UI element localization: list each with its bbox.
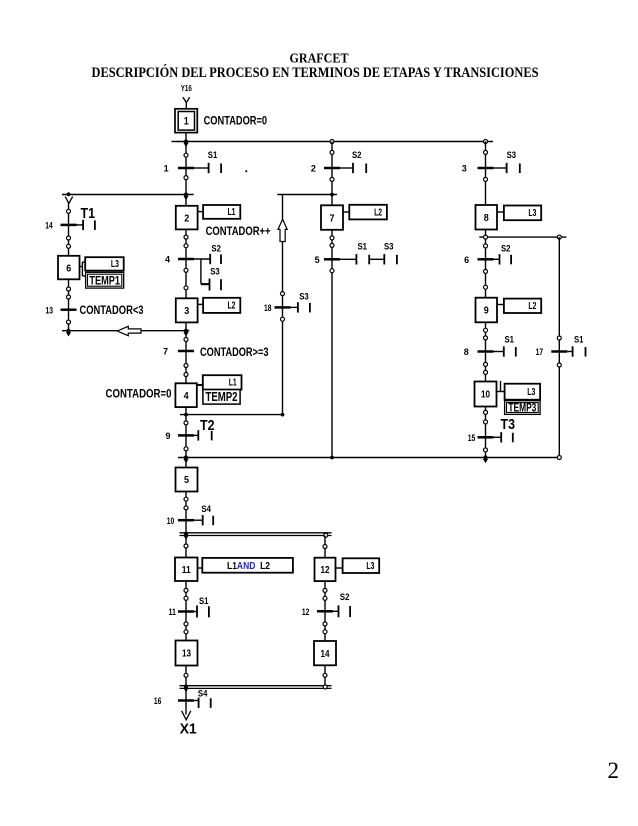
jump return line (from transition 18) — [180, 414, 283, 416]
jump branch wire — [282, 195, 284, 415]
svg-text:9: 9 — [165, 431, 170, 441]
contact S2 (transition 12) — [333, 605, 350, 617]
connection points above step 4 — [184, 364, 188, 377]
connection points above step 13 — [184, 622, 188, 634]
contact S1 (transition 5) — [340, 254, 369, 264]
label S2 — [352, 150, 362, 160]
wire fork to step 12 — [324, 536, 326, 558]
node branch col3 — [484, 140, 488, 144]
wire step 12 to action — [336, 567, 343, 569]
node colR on branch line — [557, 235, 561, 239]
contact S3 (transition 4) — [201, 279, 221, 291]
transition 3 — [462, 164, 494, 174]
connection points below step 6 — [67, 287, 71, 299]
label T1 — [81, 206, 96, 222]
action L3 of step 12 — [343, 558, 380, 573]
wire step 7 to action — [343, 211, 349, 213]
svg-text:TEMP2: TEMP2 — [206, 389, 238, 404]
node col12 on fork — [324, 533, 328, 537]
svg-text:S1: S1 — [208, 150, 218, 160]
svg-text:8: 8 — [464, 347, 469, 357]
contact S1 (transition 11) — [194, 606, 209, 618]
wire step 11 to transition 11 — [185, 581, 187, 641]
contact S3 (transition 5) — [369, 254, 397, 264]
node col1 on return line — [183, 329, 188, 337]
svg-text:4: 4 — [184, 390, 189, 402]
jump line to step 7 branch — [277, 194, 337, 196]
svg-text:L2: L2 — [374, 207, 382, 218]
svg-text:CONTADOR++: CONTADOR++ — [206, 226, 271, 238]
connection point below return line — [184, 338, 188, 342]
connection points transition 3 — [484, 150, 488, 181]
transition 2 — [311, 164, 340, 174]
svg-text:13: 13 — [46, 305, 54, 315]
action TEMP1 of step 6 — [86, 272, 124, 288]
connection points above step 6 — [67, 236, 71, 248]
svg-text:L1AND L2: L1AND L2 — [227, 560, 270, 572]
label S2 (transition 12) — [340, 592, 350, 602]
step 13 — [176, 641, 198, 666]
svg-text:2: 2 — [311, 164, 316, 174]
wire col3 to step 8 — [485, 142, 487, 206]
wire step 7 to sync line — [331, 230, 333, 458]
svg-text:L3: L3 — [111, 259, 119, 270]
wire col2 to step 7 — [331, 142, 333, 206]
initial step 1 (double box) — [175, 109, 197, 133]
svg-text:L2: L2 — [528, 301, 536, 312]
node under step 1 — [183, 139, 188, 147]
svg-text:5: 5 — [315, 255, 320, 265]
svg-text:L1: L1 — [229, 378, 237, 389]
connection points above transition 8 — [484, 328, 488, 340]
transition 14 — [45, 221, 76, 231]
step 2 — [176, 206, 198, 230]
svg-text:S2: S2 — [211, 244, 221, 254]
svg-text:S2: S2 — [352, 150, 362, 160]
svg-text:3: 3 — [462, 164, 467, 174]
condition CONTADOR>=3 — [200, 347, 269, 359]
node colL on return line — [66, 329, 71, 337]
svg-text:11: 11 — [169, 607, 177, 617]
connection point above transition 17 — [557, 336, 561, 340]
jump arrow (up) — [278, 219, 287, 241]
svg-text:L3: L3 — [527, 387, 535, 398]
svg-text:5: 5 — [184, 474, 189, 486]
label X1 — [180, 721, 197, 738]
label S1 — [208, 150, 218, 160]
connection point above transition 14 — [67, 209, 71, 213]
connection point above transition 6 — [484, 244, 488, 248]
wire T1 branch upper — [68, 203, 70, 256]
wire step 13 to join — [185, 666, 187, 686]
wire step 6 to actions — [80, 262, 86, 276]
svg-text:14: 14 — [45, 221, 53, 231]
wire transition 17 branch — [558, 237, 560, 457]
transition 8 — [464, 347, 494, 357]
connection points above transition 4 — [184, 235, 188, 248]
node col1 on sync line — [183, 455, 188, 463]
step 6 — [58, 256, 80, 279]
connection point below transition 15 — [484, 448, 488, 452]
label T2 — [200, 418, 215, 434]
svg-text:S1: S1 — [505, 335, 515, 345]
svg-text:13: 13 — [182, 648, 191, 660]
transition 17 — [536, 347, 568, 357]
svg-text:DESCRIPCIÓN DEL PROCESO EN TER: DESCRIPCIÓN DEL PROCESO EN TERMINOS DE E… — [92, 64, 539, 81]
label S3 (transition 5) — [384, 242, 394, 252]
svg-text:12: 12 — [321, 564, 330, 576]
step 10 — [475, 382, 497, 407]
junction line to T1 branch — [62, 194, 194, 196]
connection point below step 13 — [184, 673, 188, 677]
svg-text:S3: S3 — [210, 267, 220, 277]
label S2 (transition 4) — [211, 244, 221, 254]
svg-text:11: 11 — [182, 564, 191, 576]
contact S2 (transition 4) — [194, 254, 221, 264]
contact S2 (transition 6) — [494, 254, 512, 264]
svg-text:17: 17 — [536, 347, 544, 357]
svg-text:2: 2 — [184, 212, 189, 224]
transition 12 — [302, 607, 333, 617]
stray dot — [245, 170, 247, 172]
svg-text:GRAFCET: GRAFCET — [290, 51, 349, 66]
svg-text:12: 12 — [302, 607, 310, 617]
connection point above transition 9 — [184, 421, 188, 425]
action TEMP3 of step 10 — [505, 401, 540, 415]
svg-text:10: 10 — [481, 389, 490, 401]
label T3 — [501, 417, 516, 433]
wire step 10 to sync line — [485, 407, 487, 458]
wire step 12 to transition 12 — [324, 581, 326, 641]
connection points above transition 10 — [184, 497, 188, 510]
transition 9 — [165, 431, 194, 441]
input arrow from Y16 — [183, 97, 190, 109]
action L1 AND L2 of step 11 — [202, 558, 293, 573]
contact T2 (transition 9) — [194, 430, 212, 440]
svg-text:S1: S1 — [199, 596, 209, 606]
wire col1 to transition 1 — [185, 142, 187, 195]
action L3 of step 6 — [85, 257, 124, 270]
svg-text:6: 6 — [464, 255, 469, 265]
step 11 — [175, 558, 198, 582]
connection point below transition 13 — [67, 320, 71, 324]
action L2 of step 7 — [349, 205, 387, 220]
svg-text:1: 1 — [164, 164, 169, 174]
transition 11 — [169, 607, 195, 617]
label S1 (transition 17) — [574, 335, 584, 345]
svg-text:S4: S4 — [198, 689, 208, 699]
parallel fork (double line) — [180, 533, 332, 536]
wire step 8 down — [485, 230, 487, 382]
sync junction line — [178, 457, 561, 459]
wire step 5 to fork — [185, 492, 187, 533]
svg-text:3: 3 — [184, 305, 189, 317]
transition 7 — [163, 347, 194, 357]
wire step1 to branch line — [185, 133, 187, 142]
svg-text:1: 1 — [184, 115, 189, 127]
node col1 on fork — [183, 532, 188, 540]
node col2 on sync line — [330, 456, 334, 460]
branch line to transition 17 column — [479, 236, 566, 238]
node col2 on jump line — [330, 193, 334, 197]
node col3 on sync line — [483, 455, 488, 463]
svg-text:L3: L3 — [528, 208, 536, 219]
transition 15 — [468, 433, 494, 443]
svg-text:CONTADOR=0: CONTADOR=0 — [106, 388, 172, 400]
label S3 — [507, 150, 516, 160]
action CONTADOR++ of step 2 — [206, 226, 271, 238]
action L2 of step 9 — [504, 299, 541, 313]
connection point below step 14 — [323, 673, 327, 677]
svg-text:14: 14 — [321, 648, 330, 660]
wire step 2 to action — [198, 211, 204, 213]
svg-text:7: 7 — [163, 347, 168, 357]
connection points above transition 5 — [330, 236, 334, 248]
connection points below step 11 — [184, 588, 188, 600]
step 7 — [321, 205, 343, 230]
connection point above transition 18 — [281, 292, 285, 296]
svg-text:4: 4 — [165, 255, 170, 265]
svg-text:6: 6 — [66, 262, 71, 274]
node branch col2 — [330, 140, 334, 144]
label S4 (transition 10) — [201, 504, 211, 514]
wire step 3 to action — [198, 303, 204, 305]
connection point below transition 17 — [557, 363, 561, 367]
step 4 — [175, 383, 196, 407]
wire step 4 to transition 9 — [185, 407, 187, 457]
contact S4 (transition 16) — [194, 698, 211, 708]
contact S1 (transition 1) — [194, 163, 221, 173]
contact S1 (transition 8) — [494, 346, 516, 356]
svg-text:T3: T3 — [501, 417, 516, 433]
page number — [608, 758, 620, 783]
node col1 on junction line — [183, 192, 188, 200]
step 9 — [476, 298, 498, 323]
svg-text:CONTADOR=0: CONTADOR=0 — [204, 115, 268, 127]
node col1 on jump return line — [184, 413, 188, 417]
transition 5 — [315, 255, 340, 265]
wire step 11 to action — [198, 567, 204, 569]
node colL with return arrow — [65, 192, 73, 203]
step 3 — [176, 298, 198, 322]
connection points transition 2 — [330, 150, 334, 181]
connection points transition 1 — [184, 153, 188, 179]
title GRAFCET — [290, 51, 349, 66]
connection points above step 10 — [484, 362, 488, 374]
wire step 2 to transition 4 — [185, 229, 187, 298]
wire step 9 to action — [497, 304, 504, 306]
node col18 on jump return line — [281, 413, 285, 417]
svg-text:16: 16 — [154, 696, 162, 706]
wire step 4 to actions — [197, 384, 203, 386]
label S4 (transition 16) — [198, 689, 208, 699]
label S1 (transition 8) — [505, 335, 515, 345]
wire sync line to step 5 — [185, 458, 187, 468]
svg-text:S1: S1 — [358, 242, 368, 252]
svg-text:S2: S2 — [340, 592, 350, 602]
svg-text:S2: S2 — [501, 244, 511, 254]
svg-text:Y16: Y16 — [181, 83, 192, 93]
contact S3 (transition 18) — [291, 302, 310, 312]
transition 18 — [264, 303, 291, 313]
svg-text:7: 7 — [330, 212, 335, 224]
transition 4 — [165, 255, 194, 265]
action TEMP2 of step 4 — [203, 389, 240, 404]
output arrow — [182, 711, 191, 720]
parallel join (double line) — [180, 686, 332, 689]
connection points above step 3 — [184, 268, 188, 290]
svg-text:15: 15 — [468, 433, 476, 443]
wire step 3 to transition 7 — [185, 322, 187, 383]
svg-text:CONTADOR>=3: CONTADOR>=3 — [200, 347, 269, 359]
svg-text:S3: S3 — [299, 292, 309, 302]
node col12 on join — [323, 685, 327, 689]
node col1 on join — [183, 684, 188, 692]
contact T1 (transition 14) — [77, 220, 95, 230]
contact T3 (transition 15) — [494, 432, 513, 442]
transition 6 — [464, 255, 493, 265]
svg-text:S3: S3 — [384, 242, 394, 252]
step 8 — [476, 205, 498, 230]
svg-text:T1: T1 — [81, 206, 96, 222]
action L3 of step 8 — [504, 206, 541, 221]
label S3 (transition 4) — [210, 267, 220, 277]
contact S4 (transition 10) — [194, 515, 213, 525]
wire fork to step 11 — [185, 536, 187, 558]
svg-text:L3: L3 — [366, 561, 374, 572]
svg-text:10: 10 — [167, 516, 175, 526]
svg-text:CONTADOR<3: CONTADOR<3 — [80, 305, 144, 317]
connection points above step 9 — [484, 269, 488, 289]
return arrow (left) — [117, 326, 141, 335]
wire junction to step 2 — [185, 195, 187, 206]
wire step 10 to actions — [497, 381, 505, 392]
or-branch wire to S3 — [201, 259, 210, 284]
branch line top (to steps 2/7/8) — [172, 141, 494, 143]
svg-text:L2: L2 — [228, 301, 236, 312]
connection point below transition 18 — [281, 317, 285, 321]
subtitle — [92, 64, 539, 81]
connection point above step 11 — [184, 544, 188, 548]
svg-text:S1: S1 — [574, 335, 584, 345]
connection point below transition 9 — [184, 447, 188, 451]
step 12 — [315, 558, 336, 581]
transition 16 — [154, 696, 194, 706]
svg-text:8: 8 — [484, 212, 489, 224]
svg-text:9: 9 — [484, 305, 489, 317]
action L1 of step 2 — [203, 205, 240, 219]
wire step 14 to join — [324, 665, 326, 685]
svg-text:2: 2 — [608, 758, 620, 783]
node col3 on branch line — [484, 235, 488, 239]
connection points below step 12 — [323, 588, 327, 600]
transition 13 — [46, 305, 77, 315]
transition 1 — [164, 164, 194, 174]
contact S1 (transition 17) — [567, 346, 585, 356]
condition CONTADOR<3 — [80, 305, 144, 317]
label S3 (transition 18) — [299, 292, 309, 302]
action L3 of step 10 — [505, 384, 540, 400]
action L2 of step 3 — [203, 298, 240, 313]
node colR on sync line — [557, 456, 561, 460]
connection point below transition 5 — [330, 269, 334, 273]
svg-text:18: 18 — [264, 303, 272, 313]
svg-text:X1: X1 — [180, 721, 197, 738]
action CONTADOR=0 of step 4 — [106, 388, 172, 400]
action CONTADOR=0 of step 1 — [204, 115, 268, 127]
label S1 (transition 5) — [358, 242, 368, 252]
return line to T1 branch — [62, 330, 189, 332]
transition 10 — [167, 516, 194, 526]
wire step 8 to action — [497, 211, 504, 213]
label S2 (transition 6) — [501, 244, 511, 254]
contact S3 (transition 3) — [494, 163, 520, 173]
connection points above step 14 — [323, 622, 327, 634]
connection point above step 12 — [323, 545, 327, 549]
contact S2 (transition 2) — [340, 163, 366, 173]
svg-text:TEMP1: TEMP1 — [89, 273, 120, 287]
action L1 of step 4 — [203, 375, 242, 389]
svg-text:S3: S3 — [507, 150, 516, 160]
wire step 6 to transition 13 — [68, 279, 70, 330]
wire join to output arrow — [185, 688, 187, 714]
connection points below step 10 — [484, 410, 488, 424]
step 5 — [176, 468, 198, 492]
label S1 (transition 11) — [199, 596, 209, 606]
label Y16 — [181, 83, 192, 93]
step 14 — [314, 641, 336, 665]
svg-text:S4: S4 — [201, 504, 211, 514]
svg-text:TEMP3: TEMP3 — [508, 401, 536, 415]
svg-text:L1: L1 — [228, 207, 236, 218]
